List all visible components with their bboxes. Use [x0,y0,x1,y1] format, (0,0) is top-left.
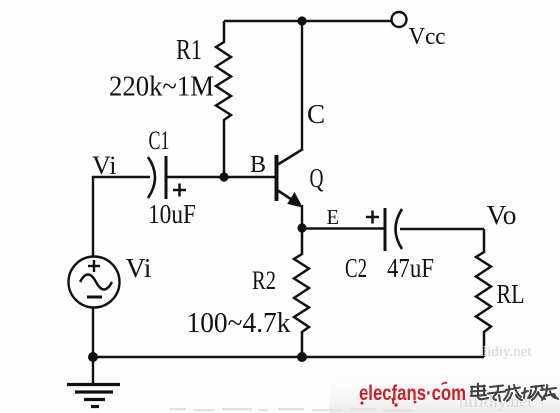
Vcc terminal [392,12,407,27]
wire emitter [301,205,303,229]
svg-text:47uF: 47uF [387,253,434,283]
svg-text:10uF: 10uF [148,199,196,229]
capacitor C2 [366,208,402,251]
svg-text:elecfans·com: elecfans·com [359,381,466,405]
svg-text:Vi: Vi [126,253,152,283]
caption remnants bottom edge [170,408,412,411]
svg-text:R1: R1 [176,35,202,66]
wire collector [301,21,303,150]
wire base [166,176,275,178]
wire input vertical [92,176,94,257]
resistor R1 [216,21,231,177]
ground [67,357,120,407]
transistor Q1 [277,149,304,207]
svg-text:Vi: Vi [92,151,116,180]
wire input [92,176,150,178]
logo red flourishes [360,382,447,407]
wire source to ground node [92,307,94,358]
wire top rail [224,20,391,22]
wire C2 to RL [400,228,484,230]
resistor RL [476,229,491,357]
wire bottom rail [93,356,484,359]
svg-text:220k~1M: 220k~1M [109,72,214,103]
svg-text:B: B [250,152,266,178]
svg-text:Vo: Vo [487,200,517,230]
node ground junction [88,352,98,362]
node E junction [297,223,306,232]
svg-text:C: C [307,99,325,129]
svg-text:RL: RL [497,279,525,309]
svg-text:C2: C2 [345,253,367,283]
node R2 bottom junction [297,352,307,362]
svg-text:Q: Q [310,163,324,193]
svg-text:C1: C1 [149,126,170,155]
node B junction [219,172,228,181]
svg-text:R2: R2 [252,266,276,295]
svg-text:E: E [327,205,340,229]
node top junction [297,16,306,25]
capacitor C1 [148,156,186,199]
svg-text:lidiy.net: lidiy.net [483,344,532,360]
source Vi [69,257,120,308]
resistor R2 [294,228,309,357]
wire emitter to C2 [302,227,384,229]
svg-text:Vcc: Vcc [409,24,446,50]
logo chinese characters [471,384,558,402]
svg-text:100~4.7k: 100~4.7k [187,308,291,339]
